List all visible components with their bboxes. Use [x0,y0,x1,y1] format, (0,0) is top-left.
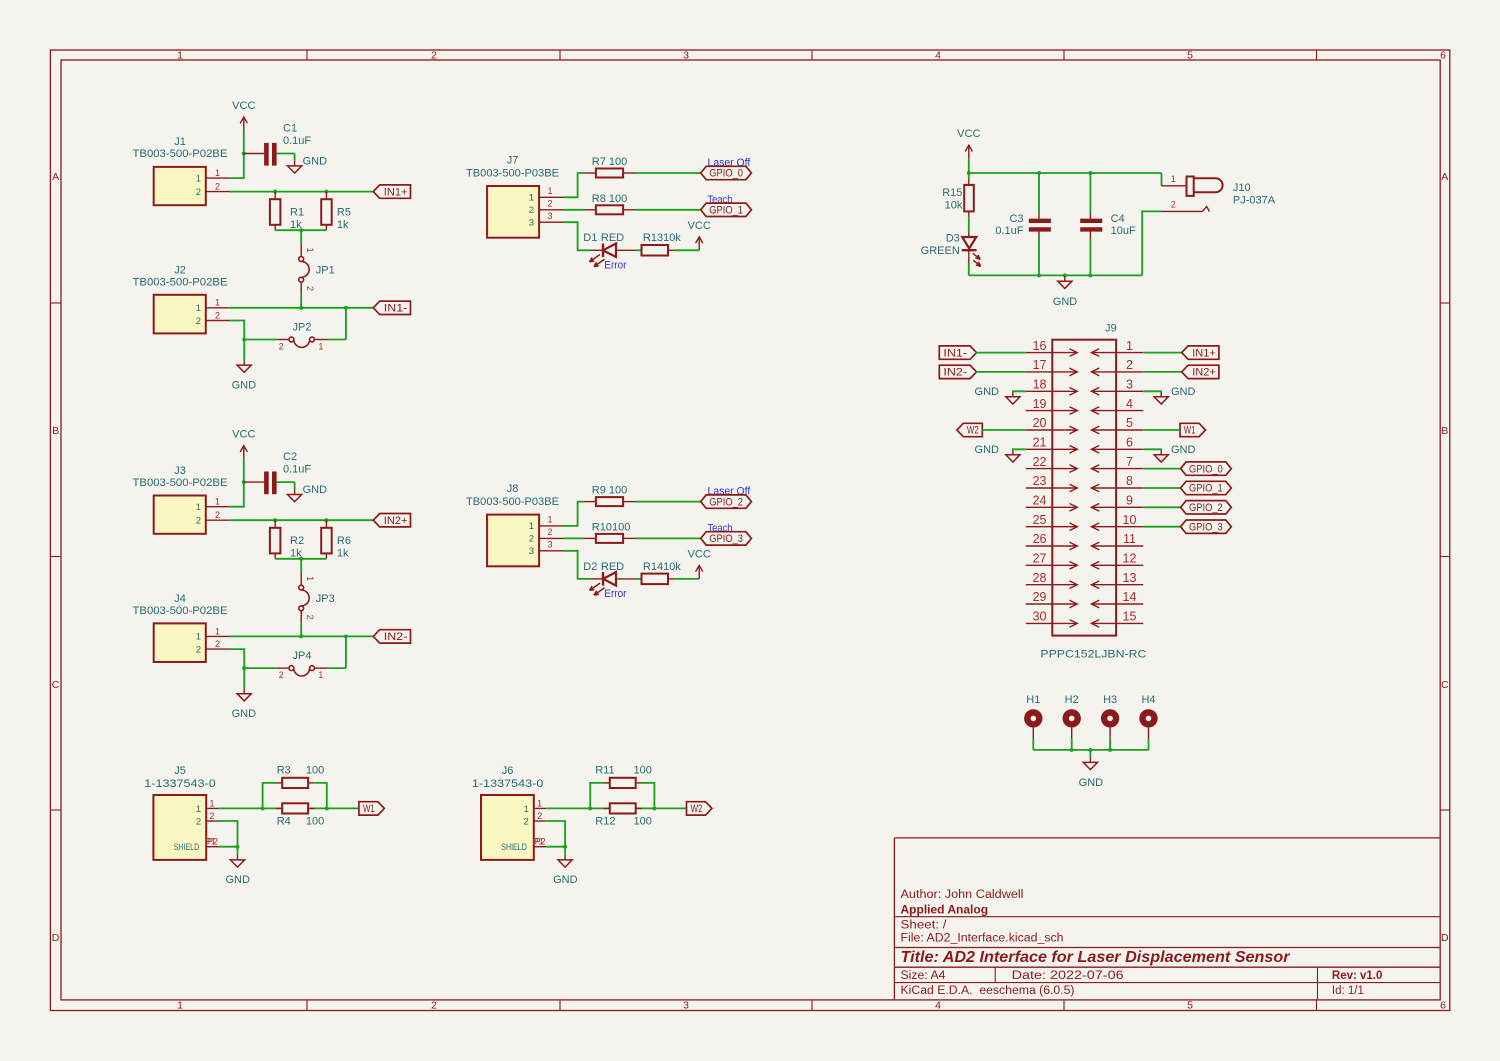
svg-text:100: 100 [634,765,652,777]
wire [1032,738,1034,750]
svg-text:1: 1 [196,502,201,513]
pin 28 (J9 left) [1026,571,1078,589]
svg-text:VCC: VCC [232,100,255,112]
svg-text:1: 1 [537,798,542,808]
wire [294,482,296,489]
svg-text:GND: GND [232,379,257,391]
svg-text:1: 1 [215,626,220,636]
power VCC (J3 block) [232,429,255,460]
svg-text:0.1uF: 0.1uF [283,135,311,147]
resistor R6 [321,520,351,559]
svg-text:GND: GND [975,444,1000,456]
mounting hole H3 [1101,694,1119,738]
svg-text:2: 2 [1126,358,1133,372]
svg-text:C2: C2 [283,451,297,463]
svg-text:GPIO_1: GPIO_1 [709,205,743,217]
wire [674,578,699,580]
svg-text:R8 100: R8 100 [592,193,627,205]
wire [1143,526,1180,528]
svg-text:GPIO_2: GPIO_2 [1189,502,1223,514]
junction [344,306,348,310]
global label GPIO_3 (J9) [1181,520,1232,533]
svg-text:R3: R3 [277,765,291,777]
svg-text:1: 1 [547,515,552,525]
svg-text:A: A [1441,171,1448,183]
resistor R3 [276,765,324,789]
capacitor C4 [1080,173,1136,275]
pin 22 (J9 left) [1026,455,1078,473]
global label GPIO_1 [701,203,752,216]
svg-text:11: 11 [1123,532,1136,546]
ground (J9 right) [1154,450,1168,462]
wire [564,502,584,526]
resistor R9 [584,485,635,507]
global label W2 [957,423,982,436]
svg-text:100: 100 [306,815,324,827]
svg-text:R10100: R10100 [592,521,631,533]
resistor R12 [595,803,652,827]
wire [1142,211,1161,275]
svg-text:GND: GND [1053,296,1078,308]
pin 24 (J9 left) [1026,494,1078,512]
pin 18 (J9 left) [1026,378,1078,396]
wire [1071,738,1073,750]
svg-text:0.1uF: 0.1uF [283,464,311,476]
junction [1037,171,1041,175]
svg-text:TB003-500-P02BE: TB003-500-P02BE [133,477,228,489]
wire [1143,468,1180,470]
wire [237,847,239,855]
svg-text:5: 5 [1187,1000,1193,1012]
svg-text:Title: AD2 Interface for Laser: Title: AD2 Interface for Laser Displacem… [901,949,1291,966]
connector J6 [472,765,546,860]
svg-text:2: 2 [196,187,201,198]
junction [299,634,303,638]
svg-text:100: 100 [634,815,652,827]
svg-text:IN1+: IN1+ [1192,347,1216,359]
capacitor C1 [244,123,312,166]
junction [1037,273,1041,277]
wire [564,551,591,579]
junction [967,171,971,175]
wire [1143,448,1161,451]
wire [642,783,655,809]
ground (C2) [288,490,302,502]
svg-text:C: C [1441,679,1449,691]
junction [242,666,246,670]
svg-text:1: 1 [305,576,315,581]
svg-text:TB003-500-P02BE: TB003-500-P02BE [133,277,228,289]
svg-text:RED: RED [601,232,624,244]
resistor R1 [270,192,304,231]
junction [236,845,240,849]
svg-text:2: 2 [209,811,214,821]
pin 23 (J9 left) [1026,474,1078,492]
svg-text:R11: R11 [595,765,614,777]
svg-text:J8: J8 [507,483,519,495]
svg-text:3: 3 [683,1000,689,1012]
svg-text:1: 1 [196,632,201,643]
global label IN2+ [1182,365,1219,378]
svg-text:18: 18 [1033,378,1047,392]
svg-text:Sheet: /: Sheet: / [901,919,948,931]
svg-text:D: D [52,932,60,944]
svg-text:20: 20 [1033,416,1047,430]
svg-text:R1310k: R1310k [643,232,681,244]
wire [636,578,642,580]
resistor R4 [276,803,324,827]
svg-text:1-1337543-0: 1-1337543-0 [472,778,544,790]
wire [546,821,565,847]
junction [325,806,329,810]
svg-text:2: 2 [215,310,220,320]
svg-text:B: B [1441,425,1448,437]
ground (J6) [558,855,572,867]
svg-text:GND: GND [553,874,578,886]
wire [243,459,245,482]
svg-text:1: 1 [209,798,214,808]
mounting hole H4 [1139,694,1157,738]
ground (J9 left) [1006,392,1020,404]
svg-text:1: 1 [215,298,220,308]
global label W2 [687,802,712,815]
wire [969,172,1162,174]
svg-text:R1: R1 [290,207,304,219]
svg-text:J3: J3 [174,465,186,477]
wire [636,249,642,251]
wire [635,172,701,174]
svg-text:1: 1 [215,168,220,178]
jumper JP2 [244,321,346,351]
junction [273,190,277,194]
svg-text:2: 2 [196,816,201,827]
wire [230,191,373,193]
wire [969,274,1142,276]
title block [894,838,1440,1000]
wire [546,807,686,809]
pin 4 (J9 right) [1091,397,1143,415]
svg-text:C4: C4 [1111,213,1125,225]
pin 9 (J9 right) [1091,494,1143,512]
LED D3 [921,232,981,266]
global label IN1- [939,346,976,359]
junction [1070,748,1074,752]
svg-text:PPPC152LJBN-RC: PPPC152LJBN-RC [1040,649,1146,661]
junction [1108,748,1112,752]
svg-text:VCC: VCC [232,429,255,441]
svg-text:R6: R6 [337,535,351,547]
svg-text:21: 21 [1033,436,1047,450]
svg-text:5: 5 [1126,416,1133,430]
svg-text:W2: W2 [691,803,703,815]
svg-text:10uF: 10uF [1111,225,1136,237]
svg-text:GND: GND [1171,444,1196,456]
svg-text:1: 1 [196,804,201,815]
wire [564,173,584,197]
svg-text:RED: RED [601,561,624,573]
svg-text:P2: P2 [207,837,218,847]
wire [230,321,244,340]
wire [219,821,238,847]
ground (J2) [237,360,251,372]
wire [230,519,373,521]
svg-text:2: 2 [196,516,201,527]
svg-text:2: 2 [215,639,220,649]
junction [1088,748,1092,752]
svg-text:D1: D1 [583,232,597,244]
pin 21 (J9 left) [1026,436,1078,454]
wire [230,635,373,637]
resistor R11 [595,765,652,789]
svg-text:26: 26 [1033,532,1047,546]
svg-text:JP1: JP1 [316,264,335,276]
svg-text:6: 6 [1440,1000,1446,1012]
wire [263,783,276,809]
svg-text:R4: R4 [277,815,291,827]
svg-text:GND: GND [303,484,328,496]
wire [968,159,970,173]
svg-text:29: 29 [1033,590,1047,604]
global label GPIO_0 [701,166,752,179]
pin 8 (J9 right) [1091,474,1143,492]
capacitor C2 [244,451,312,494]
svg-text:J10: J10 [1233,182,1251,194]
svg-text:2: 2 [215,510,220,520]
junction [299,557,303,561]
junction [242,480,246,484]
resistor R10 [584,521,635,543]
svg-text:2: 2 [305,286,315,291]
wire [277,481,295,483]
svg-text:1k: 1k [337,548,349,560]
connector J1 [133,136,230,205]
global label IN1- [373,301,410,314]
wire [564,847,566,855]
power VCC (J1 block) [232,100,255,131]
svg-text:28: 28 [1033,571,1047,585]
global label GPIO_0 (J9) [1181,462,1232,475]
svg-text:2: 2 [547,199,552,209]
connector J7 [466,155,564,238]
junction [1088,273,1092,277]
svg-text:2: 2 [279,341,284,351]
svg-text:C3: C3 [1009,213,1023,225]
resistor R13 [642,232,682,255]
global label GPIO_1 (J9) [1181,481,1232,494]
svg-text:24: 24 [1033,494,1047,508]
svg-text:4: 4 [935,1000,941,1012]
svg-text:100: 100 [306,765,324,777]
ground (C1) [288,161,302,173]
wire [982,429,1026,431]
wire [1143,352,1181,354]
pin 15 (J9 right) [1091,610,1143,628]
junction [299,306,303,310]
svg-text:TB003-500-P02BE: TB003-500-P02BE [133,148,228,160]
ground (power input) [1058,276,1072,288]
svg-text:Rev: v1.0: Rev: v1.0 [1332,970,1383,982]
wire [968,217,970,232]
svg-text:19: 19 [1033,397,1047,411]
svg-text:3: 3 [683,50,689,62]
global label IN1+ [373,185,410,198]
junction [324,190,328,194]
pin 1 (J9 right) [1091,339,1143,357]
pin 19 (J9 left) [1026,397,1078,415]
svg-text:1: 1 [215,497,220,507]
svg-text:2: 2 [529,205,534,216]
wire [1143,506,1180,508]
wire [243,131,245,154]
wire [1013,448,1026,451]
svg-text:TB003-500-P03BE: TB003-500-P03BE [466,167,559,179]
svg-text:15: 15 [1123,610,1137,624]
svg-text:Error: Error [604,260,626,272]
svg-text:Author: John Caldwell: Author: John Caldwell [901,889,1024,901]
svg-text:W1: W1 [363,803,375,815]
wire [1143,390,1161,393]
svg-text:2: 2 [431,1000,437,1012]
svg-text:J4: J4 [174,593,186,605]
svg-text:R12: R12 [595,815,615,827]
svg-text:Size: A4: Size: A4 [901,970,947,982]
connector J5 [144,765,218,860]
pin 27 (J9 left) [1026,552,1078,570]
svg-text:VCC: VCC [688,548,711,560]
pin 2 (J9 right) [1091,358,1143,376]
connector J3 [133,465,230,534]
ground (J5) [230,855,244,867]
pin 5 (J9 right) [1091,416,1143,434]
global label GPIO_2 (J9) [1181,501,1232,514]
resistor R8 [584,193,635,215]
ground (mounting holes) [1083,757,1097,769]
wire [275,229,326,231]
wire [275,558,326,560]
svg-text:30: 30 [1033,610,1047,624]
wire [1143,487,1180,489]
svg-text:1: 1 [529,521,534,532]
pin 20 (J9 left) [1026,416,1078,434]
wire [294,154,296,161]
pin 26 (J9 left) [1026,532,1078,550]
resistor R5 [321,192,351,231]
svg-text:1: 1 [196,173,201,184]
global label GPIO_3 [701,532,752,545]
svg-text:H1: H1 [1026,694,1040,706]
jumper JP1 [299,230,335,308]
wire [345,308,347,340]
svg-text:1: 1 [177,1000,183,1012]
svg-text:GPIO_0: GPIO_0 [709,168,743,180]
junction [273,518,277,522]
svg-text:9: 9 [1126,494,1133,508]
svg-text:GND: GND [225,874,250,886]
svg-text:2: 2 [529,534,534,545]
global label GPIO_2 [701,495,752,508]
svg-text:25: 25 [1033,513,1047,527]
wire [975,352,1026,354]
svg-text:3: 3 [547,540,552,550]
wire [674,249,699,251]
svg-text:J2: J2 [174,265,186,277]
wire [564,222,591,250]
wire [546,846,565,848]
ground (J4) [237,689,251,701]
wire [635,209,701,211]
global label IN2- [373,630,410,643]
svg-text:KiCad E.D.A. eeschema (6.0.5): KiCad E.D.A. eeschema (6.0.5) [901,985,1075,997]
pin 16 (J9 left) [1026,339,1078,357]
svg-text:1: 1 [318,670,323,680]
svg-text:B: B [52,425,59,437]
pin 11 (J9 right) [1091,532,1143,550]
svg-text:10k: 10k [945,199,963,211]
svg-text:27: 27 [1033,552,1047,566]
svg-text:2: 2 [431,50,437,62]
wire [1013,390,1026,393]
junction [563,845,567,849]
wire [345,636,347,668]
LED D1 [583,232,635,271]
junction [652,806,656,810]
svg-text:1: 1 [1171,174,1176,184]
wire [590,783,603,809]
svg-text:SHIELD: SHIELD [501,842,527,853]
svg-text:Date: 2022-07-06: Date: 2022-07-06 [1012,970,1124,982]
wire [230,154,244,179]
wire [219,846,238,848]
svg-text:13: 13 [1123,571,1137,585]
wire [243,668,245,689]
svg-text:4: 4 [1126,397,1133,411]
wire [564,537,584,539]
svg-text:3: 3 [547,211,552,221]
svg-text:1: 1 [529,193,534,204]
svg-text:C: C [52,679,60,691]
svg-text:H4: H4 [1141,694,1155,706]
wire [230,307,373,309]
svg-text:1: 1 [196,303,201,314]
svg-text:Id: 1/1: Id: 1/1 [1332,985,1364,997]
svg-text:Applied Analog: Applied Analog [901,902,989,916]
svg-text:D3: D3 [946,233,960,245]
svg-text:10: 10 [1123,513,1137,527]
svg-text:SHIELD: SHIELD [174,842,200,853]
svg-text:P2: P2 [535,837,546,847]
wire [968,263,970,276]
resistor R7 [584,156,635,178]
svg-text:2: 2 [215,182,220,192]
wire [635,501,701,503]
junction [1088,171,1092,175]
resistor R2 [270,520,304,559]
svg-text:TB003-500-P02BE: TB003-500-P02BE [133,605,228,617]
wire [1143,371,1181,373]
junction [1063,273,1067,277]
svg-text:JP3: JP3 [316,593,335,605]
svg-text:D2: D2 [583,561,597,573]
svg-text:2: 2 [305,615,315,620]
power VCC (D1 row) [688,220,711,251]
global label IN2- [939,365,976,378]
capacitor C3 [995,173,1051,275]
svg-text:1: 1 [177,50,183,62]
global label W1 [1180,423,1206,436]
svg-text:VCC: VCC [688,220,711,232]
pin 7 (J9 right) [1091,455,1143,473]
svg-text:GND: GND [975,386,1000,398]
